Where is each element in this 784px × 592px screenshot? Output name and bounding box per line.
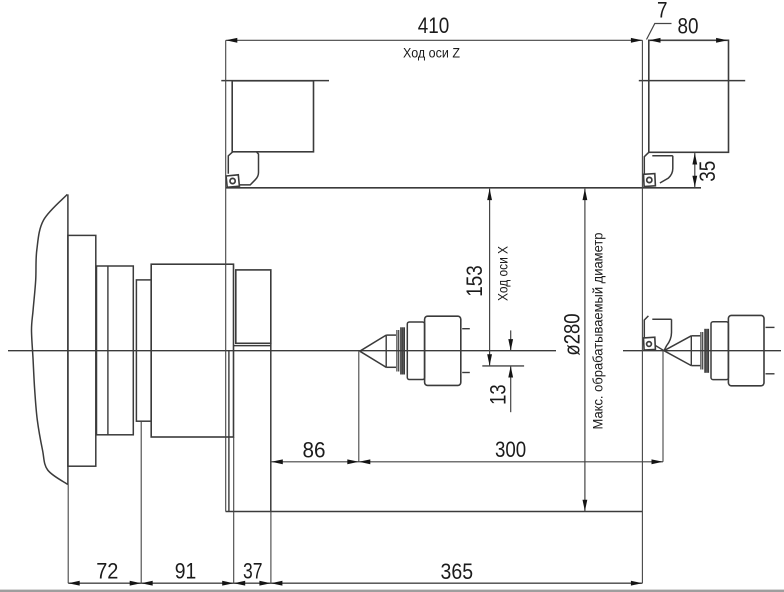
svg-text:Ход оси X: Ход оси X [496,246,511,301]
svg-text:35: 35 [695,161,720,182]
svg-text:91: 91 [175,559,197,584]
svg-text:72: 72 [96,559,118,584]
svg-text:300: 300 [495,437,526,462]
svg-text:Ход оси Z: Ход оси Z [403,46,460,61]
svg-text:ø280: ø280 [560,313,585,355]
svg-text:153: 153 [462,265,487,297]
svg-text:13: 13 [486,384,511,405]
svg-text:365: 365 [441,559,474,584]
svg-text:410: 410 [418,13,450,38]
svg-text:7: 7 [657,0,668,22]
svg-text:80: 80 [678,14,699,39]
svg-text:86: 86 [303,437,326,462]
svg-text:Макс. обрабатываемый диаметр: Макс. обрабатываемый диаметр [591,233,606,430]
svg-text:37: 37 [243,559,263,584]
